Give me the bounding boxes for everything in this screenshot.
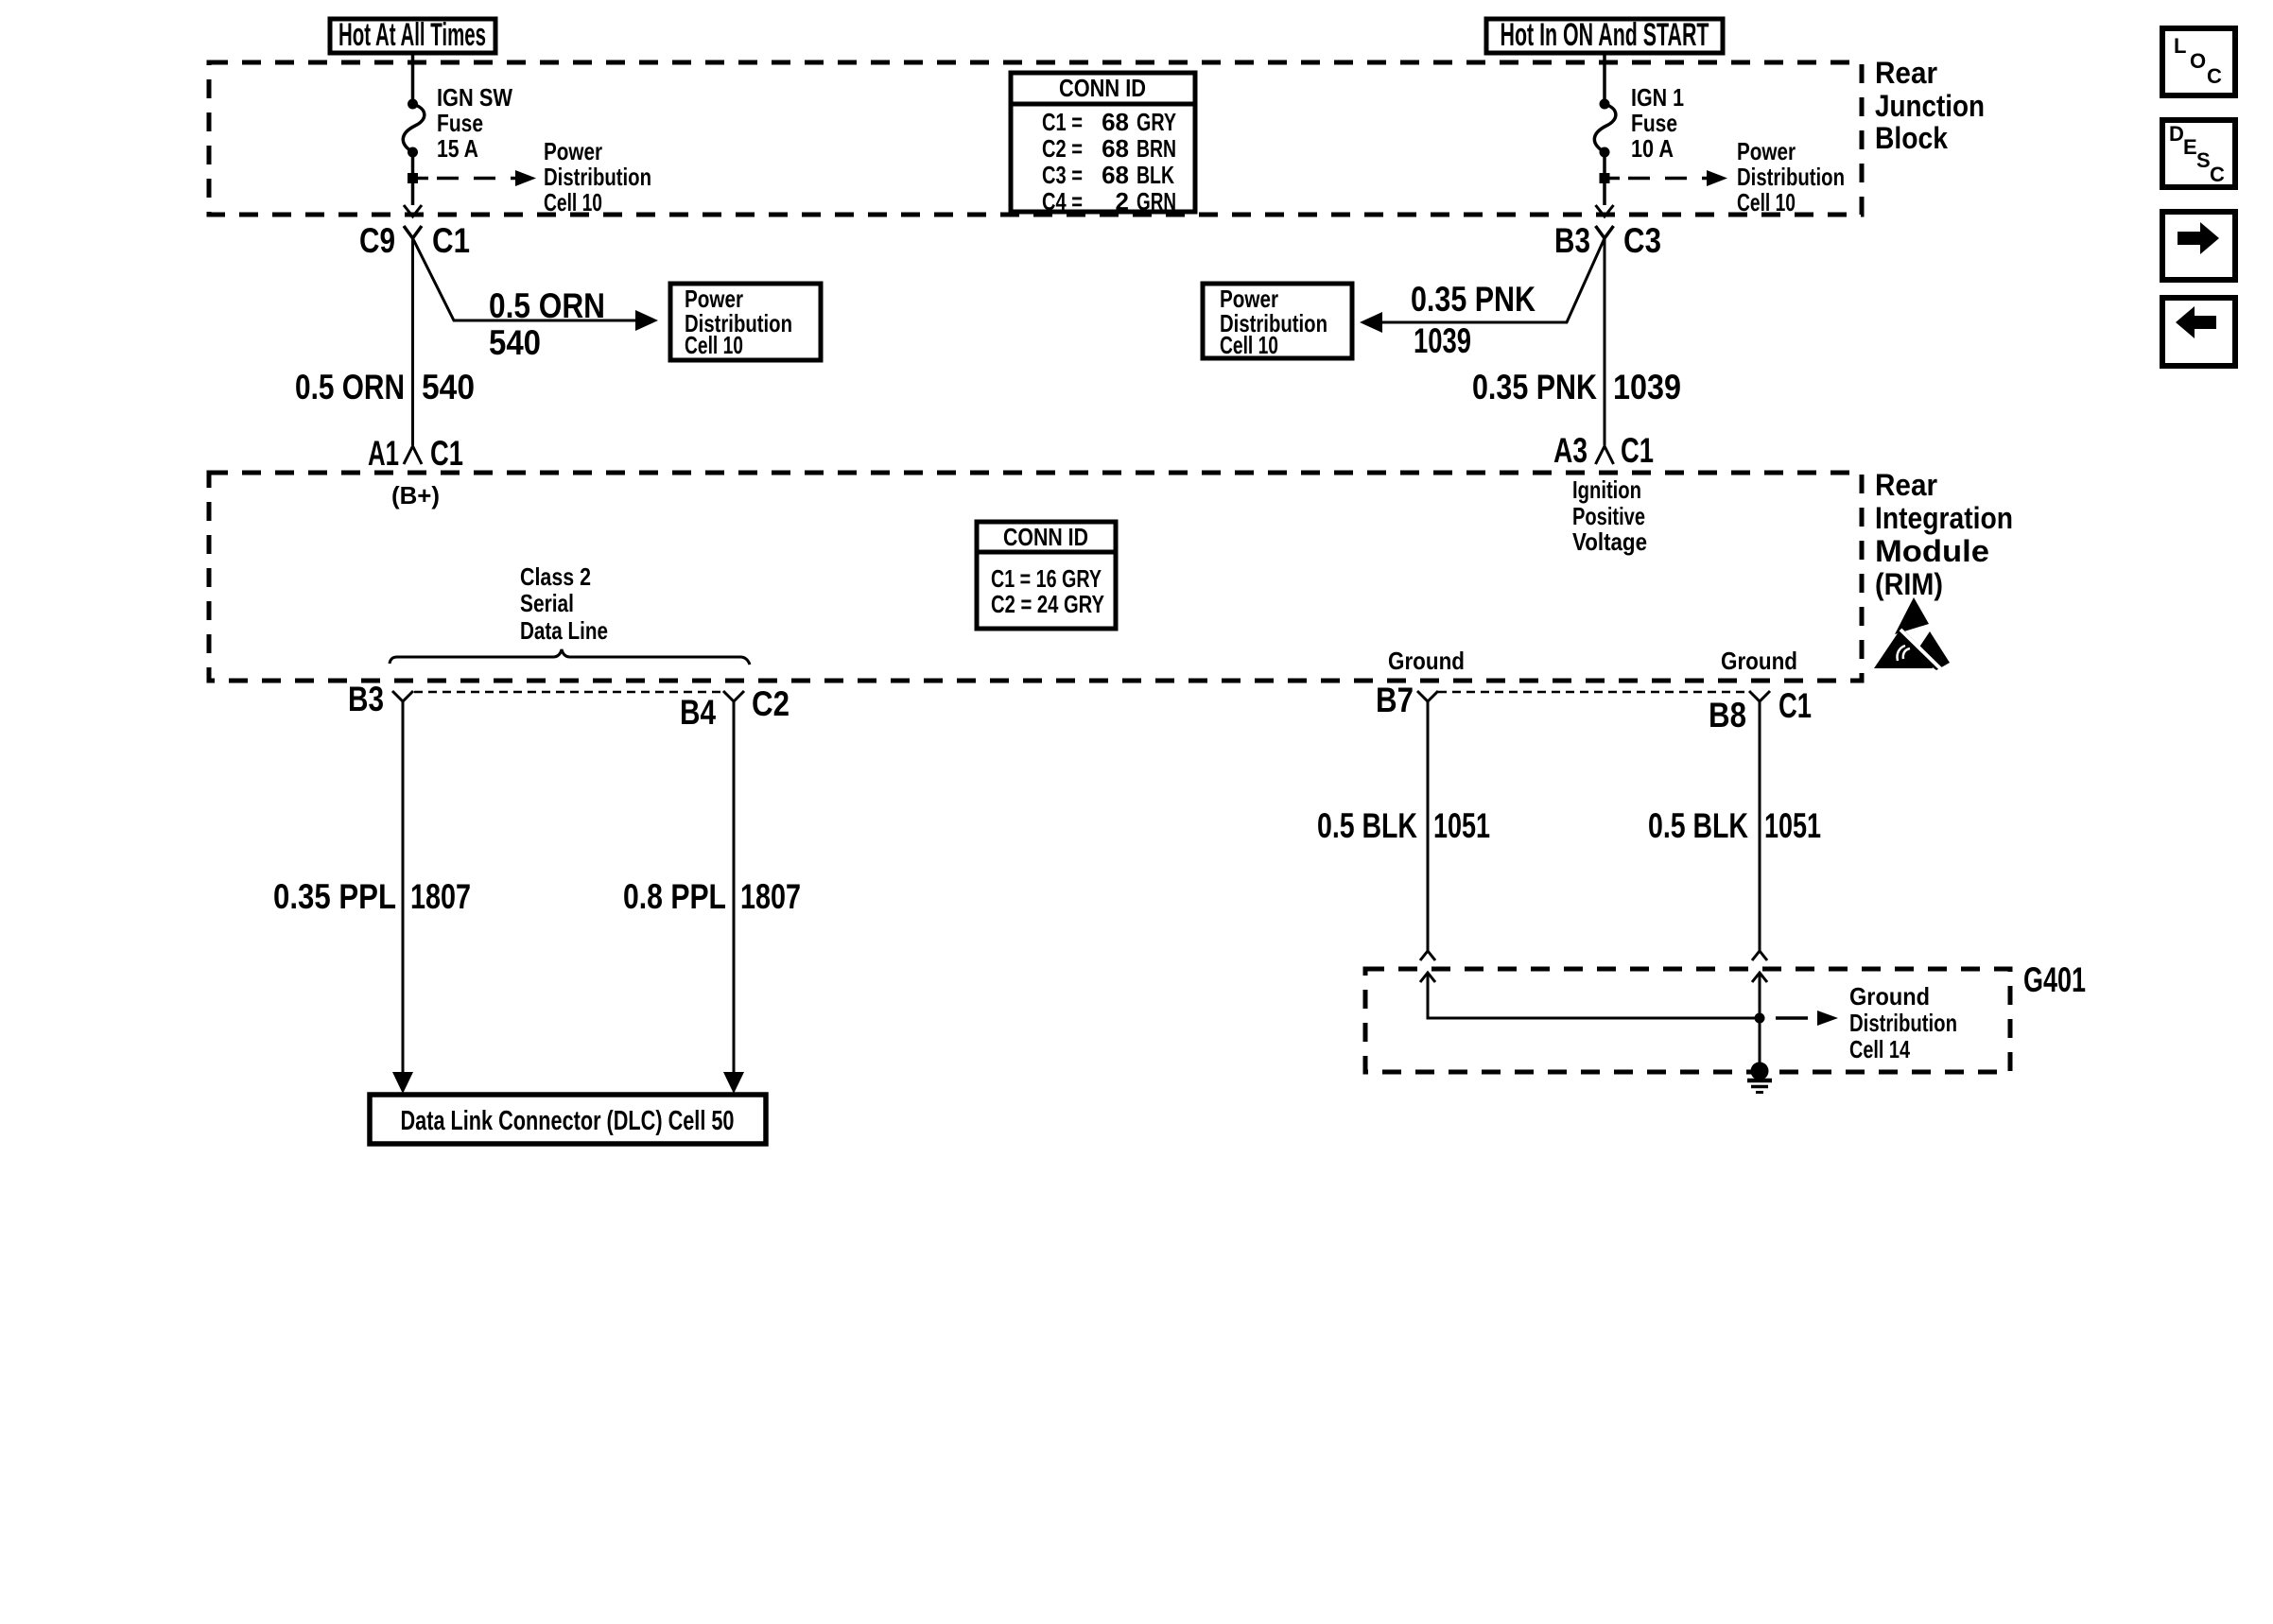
svg-text:C1: C1 <box>430 434 463 473</box>
wire: 0.5 BLK 1051 (right) down to G401 <box>1759 701 1761 951</box>
svg-text:540: 540 <box>489 323 541 362</box>
wire: inside G401 down to ground point <box>1759 973 1761 1068</box>
svg-text:CONN ID: CONN ID <box>1059 74 1146 102</box>
svg-text:Class 2: Class 2 <box>520 562 591 591</box>
connector B8/C1 (Y) <box>1709 686 1812 734</box>
svg-text:B3: B3 <box>1554 221 1590 260</box>
svg-text:Hot In ON And START: Hot In ON And START <box>1501 17 1709 53</box>
wire: 0.35 PPL 1807 to DLC <box>392 701 413 1094</box>
svg-text:C: C <box>2210 163 2225 186</box>
svg-text:G401: G401 <box>2023 960 2086 999</box>
svg-text:Fuse: Fuse <box>1631 109 1677 137</box>
value label: 0.5 BLK 1051 (right) <box>1648 806 1821 845</box>
svg-text:B8: B8 <box>1709 696 1746 734</box>
svg-text:C2 =: C2 = <box>1042 134 1083 163</box>
value label: IGN SW Fuse 15 A <box>437 83 512 163</box>
wire: branch 0.35 PNK 1039 to Power Distribution <box>1360 238 1605 333</box>
svg-text:1051: 1051 <box>1764 806 1821 845</box>
wire: ignition feed into IGN 1 fuse <box>1603 52 1606 100</box>
svg-text:0.35 PNK: 0.35 PNK <box>1472 368 1597 406</box>
svg-text:1039: 1039 <box>1414 321 1471 360</box>
svg-text:Cell 10: Cell 10 <box>685 331 743 359</box>
svg-text:Data Line: Data Line <box>520 616 608 645</box>
svg-text:Distribution: Distribution <box>1849 1009 1957 1037</box>
svg-text:B7: B7 <box>1376 681 1414 719</box>
svg-text:(RIM): (RIM) <box>1875 567 1943 601</box>
svg-text:C1 =: C1 = <box>1042 108 1083 136</box>
svg-text:Hot At All Times: Hot At All Times <box>338 17 486 53</box>
wire: 0.5 BLK 1051 (left) down to G401 <box>1427 701 1430 951</box>
svg-text:0.5 ORN: 0.5 ORN <box>489 286 605 325</box>
ground block G401 (dashed) <box>1365 969 2010 1072</box>
svg-text:E: E <box>2183 135 2197 159</box>
svg-text:Fuse: Fuse <box>437 109 483 137</box>
connector C9/C1 (female Y) on left wire <box>359 221 470 260</box>
connector bus dashed line B3-B4 <box>414 691 723 694</box>
svg-text:(B+): (B+) <box>391 481 440 510</box>
wire: 0.5 ORN 540 vertical <box>411 238 414 445</box>
svg-text:BRN: BRN <box>1136 134 1176 163</box>
wire: inside G401 from B7 leg <box>1428 973 1760 1018</box>
svg-text:GRY: GRY <box>1136 108 1176 136</box>
svg-text:Block: Block <box>1875 121 1948 155</box>
table: CONN ID (Rear Junction Block) <box>1011 73 1195 216</box>
value label: 0.35 PPL 1807 <box>273 877 471 916</box>
svg-text:Cell 10: Cell 10 <box>1220 331 1278 359</box>
svg-text:1807: 1807 <box>410 877 471 916</box>
svg-text:1039: 1039 <box>1613 368 1681 406</box>
svg-text:O: O <box>2190 49 2206 73</box>
svg-text:S: S <box>2196 148 2211 172</box>
value label: IGN 1 Fuse 10 A <box>1631 83 1684 163</box>
svg-text:C9: C9 <box>359 221 395 260</box>
table: CONN ID (RIM) <box>977 522 1116 629</box>
fuse F2: IGN 1 Fuse 10 A <box>1594 99 1616 158</box>
svg-text:540: 540 <box>422 368 475 406</box>
svg-text:CONN ID: CONN ID <box>1003 523 1088 551</box>
value label: 0.5 BLK 1051 (left) <box>1317 806 1490 845</box>
svg-text:L: L <box>2174 34 2186 58</box>
svg-text:0.5 BLK: 0.5 BLK <box>1317 806 1417 845</box>
dashed reference arrow to Power Distribution Cell 10 (right) <box>1628 170 1727 186</box>
nav icon: back arrow <box>2162 298 2235 366</box>
wire: fuse output down to RJB edge <box>411 152 415 205</box>
svg-text:Cell 14: Cell 14 <box>1849 1035 1910 1063</box>
svg-text:Distribution: Distribution <box>1737 163 1845 191</box>
svg-text:D: D <box>2169 122 2184 146</box>
svg-text:1051: 1051 <box>1433 806 1490 845</box>
junction: G401 wire junction <box>1755 1013 1765 1024</box>
wire arrowhead at RJB bottom edge (left) <box>404 205 422 216</box>
net label: Ignition Positive Voltage <box>1572 475 1647 556</box>
net label: Class 2 Serial Data Line <box>520 562 608 645</box>
reference box: Data Link Connector (DLC) Cell 50 <box>370 1095 766 1144</box>
svg-text:IGN SW: IGN SW <box>437 83 512 112</box>
svg-text:0.8 PPL: 0.8 PPL <box>623 877 726 916</box>
svg-text:B3: B3 <box>348 680 384 718</box>
ESD sensitivity symbol <box>1874 597 1950 670</box>
brace over Class 2 serial data line span <box>390 649 750 665</box>
connector A3/C1 (male chevron) into RIM <box>1553 431 1654 470</box>
junction: fuse output tap <box>408 173 418 183</box>
svg-text:C4 =: C4 = <box>1042 187 1083 216</box>
svg-text:Cell 10: Cell 10 <box>1737 188 1796 216</box>
nav icon: forward arrow <box>2162 212 2235 280</box>
reference box: Power Distribution Cell 10 (left) <box>670 284 821 360</box>
svg-text:0.5 BLK: 0.5 BLK <box>1648 806 1748 845</box>
value label: 0.5 ORN 540 (vertical wire) <box>295 368 475 406</box>
value label: 0.35 PNK 1039 (branch) <box>1411 280 1536 360</box>
svg-text:Ground: Ground <box>1849 982 1930 1011</box>
svg-text:Integration: Integration <box>1875 501 2013 535</box>
fuse F1: IGN SW Fuse 15 A <box>403 99 425 158</box>
svg-text:15 A: 15 A <box>437 134 478 163</box>
svg-text:Positive: Positive <box>1572 502 1645 530</box>
svg-text:IGN 1: IGN 1 <box>1631 83 1684 112</box>
svg-text:C3: C3 <box>1623 221 1661 260</box>
svg-text:C3 =: C3 = <box>1042 161 1083 189</box>
svg-text:Distribution: Distribution <box>544 163 651 191</box>
wire: 0.35 PNK 1039 vertical <box>1604 238 1606 445</box>
module box: Rear Junction Block (dashed) <box>209 62 1862 215</box>
connector bus dashed line B7-B8 <box>1438 691 1749 694</box>
wire: fuse output down to RJB edge (right) <box>1603 152 1606 205</box>
value label: 0.35 PNK 1039 (vertical wire) <box>1472 368 1681 406</box>
svg-text:Ground: Ground <box>1721 647 1797 675</box>
svg-text:Ground: Ground <box>1388 647 1465 675</box>
svg-text:Data Link Connector (DLC) Cell: Data Link Connector (DLC) Cell 50 <box>401 1106 735 1136</box>
reference text: Ground Distribution Cell 14 <box>1849 982 1957 1063</box>
junction: fuse output tap (right) <box>1600 173 1610 183</box>
wire: battery feed into IGN SW fuse <box>411 52 415 100</box>
dashed reference arrow to Ground Distribution Cell 14 <box>1776 1011 1838 1026</box>
connector B4/C2 (Y) <box>680 684 789 732</box>
wire arrowhead at RJB bottom edge (right) <box>1596 205 1614 216</box>
svg-text:C2 = 24 GRY: C2 = 24 GRY <box>991 590 1104 618</box>
svg-text:GRN: GRN <box>1136 187 1176 216</box>
svg-text:C1: C1 <box>1778 686 1812 725</box>
svg-text:2: 2 <box>1116 187 1129 216</box>
svg-text:Module: Module <box>1875 534 1989 568</box>
svg-text:Power: Power <box>1737 137 1796 165</box>
svg-text:A3: A3 <box>1553 431 1588 470</box>
label box: Hot At All Times <box>330 17 495 53</box>
connector chevrons at G401 boundary (right) <box>1752 951 1767 982</box>
svg-text:C1 = 16 GRY: C1 = 16 GRY <box>991 564 1102 593</box>
svg-text:Junction: Junction <box>1875 89 1985 123</box>
svg-text:1807: 1807 <box>740 877 801 916</box>
connector B7 (Y) <box>1376 681 1438 719</box>
svg-text:68: 68 <box>1102 134 1129 163</box>
module box: Rear Integration Module (RIM) (dashed) <box>209 473 1862 681</box>
svg-text:Cell 10: Cell 10 <box>544 188 602 216</box>
svg-text:A1: A1 <box>368 434 399 473</box>
dashed reference arrow to Power Distribution Cell 10 (left) <box>437 170 536 186</box>
nav icon: LOC <box>2162 28 2235 95</box>
connector B3/C3 (female Y) on right wire <box>1554 221 1661 260</box>
svg-text:Power: Power <box>544 137 602 165</box>
svg-text:C1: C1 <box>432 221 470 260</box>
connector A1/C1 (male chevron) into RIM <box>368 434 463 473</box>
svg-text:B4: B4 <box>680 693 716 732</box>
svg-text:C2: C2 <box>752 684 789 723</box>
svg-text:Voltage: Voltage <box>1572 527 1647 556</box>
reference text: Power Distribution Cell 10 (left, in RJB) <box>544 137 651 216</box>
module title: Rear Junction Block <box>1875 56 1985 155</box>
connector B3 (Y) <box>348 680 413 718</box>
svg-text:0.35 PPL: 0.35 PPL <box>273 877 396 916</box>
svg-text:Serial: Serial <box>520 589 574 617</box>
reference box: Power Distribution Cell 10 (right) <box>1203 284 1352 359</box>
wire: 0.8 PPL 1807 to DLC <box>723 701 744 1094</box>
svg-text:10 A: 10 A <box>1631 134 1674 163</box>
nav icon: DESC <box>2162 120 2235 187</box>
svg-text:68: 68 <box>1102 108 1129 136</box>
wire: branch 0.5 ORN 540 to Power Distribution <box>413 238 659 331</box>
value label: 0.5 ORN 540 (branch) <box>489 286 605 362</box>
connector chevrons at G401 boundary (left) <box>1420 951 1435 982</box>
value label: 0.8 PPL 1807 <box>623 877 801 916</box>
svg-text:Rear: Rear <box>1875 468 1937 502</box>
svg-text:BLK: BLK <box>1136 161 1174 189</box>
reference text: Power Distribution Cell 10 (right, in RJB) <box>1737 137 1845 216</box>
svg-text:0.5 ORN: 0.5 ORN <box>295 368 405 406</box>
svg-text:C: C <box>2207 64 2222 88</box>
ground symbol at G401 <box>1747 1063 1772 1093</box>
svg-text:68: 68 <box>1102 161 1129 189</box>
svg-text:Ignition: Ignition <box>1572 475 1641 504</box>
label box: Hot In ON And START <box>1486 17 1723 53</box>
svg-text:Rear: Rear <box>1875 56 1937 90</box>
module title: Rear Integration Module (RIM) <box>1875 468 2013 601</box>
svg-text:0.35 PNK: 0.35 PNK <box>1411 280 1536 319</box>
svg-text:C1: C1 <box>1621 431 1654 470</box>
